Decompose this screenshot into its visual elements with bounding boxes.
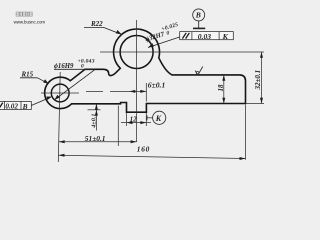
datum B circle — [193, 9, 206, 29]
dim 18 — [217, 75, 225, 104]
svg-text:6±0.1: 6±0.1 — [148, 81, 166, 90]
datum K circle — [147, 111, 166, 124]
leader to Φ16 bore — [55, 69, 95, 99]
label Φ16H9 +0.043/0 — [54, 59, 95, 100]
centerline left boss horizontal — [41, 92, 79, 94]
watermark line 1 (CJK glyph marks) — [16, 12, 32, 16]
svg-text:0.02: 0.02 — [5, 103, 18, 111]
label R22 — [84, 20, 122, 34]
bore circle Φ32H7 — [120, 36, 153, 69]
svg-text:R22: R22 — [90, 20, 103, 28]
dim 4±0.1 — [88, 104, 101, 131]
svg-text:4±0.1: 4±0.1 — [91, 114, 98, 129]
dim 32±0.1 — [246, 52, 265, 104]
svg-text:ϕ16H9: ϕ16H9 — [54, 63, 74, 70]
svg-text:B: B — [195, 11, 201, 20]
svg-text:K: K — [222, 32, 229, 41]
surface finish symbol — [195, 67, 203, 76]
centerline left boss vertical / extension — [58, 72, 60, 162]
svg-text:160: 160 — [137, 145, 150, 154]
extension line step edge — [117, 106, 119, 147]
label Φ32H7 +0.025/0 with leader — [143, 22, 181, 48]
part outline — [45, 29, 246, 112]
svg-text:18: 18 — [217, 84, 225, 92]
svg-text:0.03: 0.03 — [198, 32, 211, 41]
dim 12 (slot) — [121, 113, 151, 126]
svg-text:12: 12 — [130, 116, 138, 124]
centerline big boss vertical — [136, 20, 138, 142]
leader to left bore — [31, 97, 51, 106]
svg-text:32±0.1: 32±0.1 — [254, 70, 262, 91]
svg-text:0: 0 — [81, 63, 84, 69]
dim 160 — [59, 105, 246, 161]
dim 16±0.1 — [86, 81, 165, 102]
centerline big boss horizontal / 32 extension — [100, 51, 264, 53]
feature control frame // 0.03 K — [180, 32, 234, 41]
label R15 — [20, 71, 49, 84]
svg-text:51±0.1: 51±0.1 — [85, 134, 106, 143]
svg-text:K: K — [155, 114, 162, 123]
svg-text:B: B — [22, 102, 28, 111]
svg-text:www.busnc.com: www.busnc.com — [14, 20, 46, 25]
dim 51±0.1 — [59, 134, 137, 143]
feature control frame // 0.02 B (left, clipped) — [0, 97, 52, 111]
bore circle Φ16H9 — [51, 84, 69, 102]
